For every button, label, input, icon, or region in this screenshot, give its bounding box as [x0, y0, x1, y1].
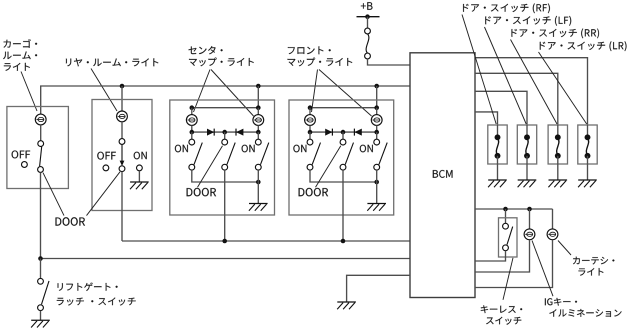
junction: bus2 at liftgate	[38, 256, 43, 261]
wire: rear common down to bus1	[121, 172, 123, 241]
BCM box	[410, 53, 475, 298]
leader: front map label to left lamp	[312, 70, 318, 113]
contact: center switch bottom x=191.8	[189, 164, 195, 170]
lever: front switch x=376.7	[379, 143, 387, 165]
junction: front inner bus left	[308, 105, 313, 110]
contact: cargo switch common	[38, 141, 44, 147]
wire: center diode bus	[192, 131, 258, 133]
wire: door switch LR to ground	[587, 156, 589, 180]
arrow: rear switch selector	[120, 144, 125, 166]
wire: liftgate to ground	[40, 311, 42, 321]
wire: front bus to left lamp	[309, 108, 311, 115]
wire: center inner top bus	[192, 107, 258, 109]
leader: front map label to right lamp	[319, 70, 372, 117]
box: center map light	[170, 100, 275, 215]
contact: front switch top x=376.7	[374, 139, 380, 145]
lamp: front map light right	[371, 115, 382, 126]
label: ON (center left)	[175, 145, 188, 153]
wire: front bus to right lamp	[376, 108, 378, 115]
junction: bus1 center	[222, 239, 227, 244]
junction: front diode bus left	[308, 130, 313, 135]
wire: door switch LF to ground	[526, 156, 528, 180]
wire: cargo lamp to switch	[40, 125, 42, 141]
leader: label to door switch LF	[485, 27, 527, 124]
junction: center inner bus left	[190, 105, 195, 110]
wire: BCM to door switch LF	[475, 91, 527, 125]
label: door switch (RF) ドア・スイッチ	[463, 3, 550, 13]
label: BCM	[433, 170, 453, 178]
lamp: courtesy light	[547, 229, 558, 240]
label: door switch (LF) ドア・スイッチ	[485, 16, 571, 26]
wire: door switch RR to ground	[557, 156, 559, 180]
leader: IG key label	[532, 241, 553, 297]
wire: +B down	[367, 17, 369, 29]
contact: front switch top x=310	[307, 139, 313, 145]
ground: door switch LR	[578, 180, 597, 187]
label: ON (rear)	[134, 152, 147, 160]
fusible link FL	[365, 28, 371, 59]
contact: door switch LF top	[524, 134, 530, 140]
lever: door switch RR	[557, 139, 559, 154]
lamp: center map light left	[186, 115, 197, 126]
contact: center switch bottom x=258.3	[255, 164, 261, 170]
contact: rear OFF	[103, 165, 109, 171]
wire: front DOOR common to bus1	[342, 170, 344, 241]
junction: +B	[365, 14, 370, 19]
wire: center DOOR common to bus1	[224, 170, 226, 241]
wire: center right lamp to diode bus	[257, 125, 259, 132]
label: DOOR (front)	[299, 188, 329, 196]
junction: IG lamp feed	[527, 207, 532, 212]
lever: door switch RF	[496, 139, 498, 154]
box: keyless switch	[499, 218, 518, 257]
wire: door switch RF to ground	[497, 156, 499, 180]
wire: bus2 cargo/liftgate to BCM	[41, 258, 411, 260]
contact: center switch top x=224.7	[222, 139, 228, 145]
junction: bus to rear lamp	[120, 84, 125, 89]
wire: bus drop to rear lamp	[121, 86, 123, 111]
lever: keyless switch	[507, 227, 513, 245]
terminal: +B bar	[357, 16, 380, 18]
ground: BCM	[337, 302, 356, 309]
leader: center map label to right lamp	[211, 70, 254, 117]
wire: center bus to right lamp	[257, 108, 259, 115]
wire: BCM to door switch RF	[475, 112, 498, 125]
contact: keyless bottom	[503, 245, 509, 251]
ground: door switch RR	[548, 180, 567, 187]
contact: door switch LR bottom	[585, 153, 591, 159]
wire: rear lamp to contact	[121, 122, 123, 139]
junction: bus1 front	[341, 239, 346, 244]
contact: center switch top x=191.8	[189, 139, 195, 145]
wire: BCM to door switch LR	[475, 58, 588, 125]
label: DOOR (cargo/rear)	[56, 217, 86, 225]
wire: front diode bus to contact x=343	[342, 132, 344, 139]
contact: cargo DOOR	[38, 167, 44, 173]
lamp: cargo room light	[35, 114, 46, 125]
contact: front switch top x=343	[340, 139, 346, 145]
contact: liftgate top	[38, 278, 44, 284]
contact: rear common	[119, 166, 125, 172]
contact: center switch bottom x=224.7	[222, 164, 228, 170]
wire: bus1 door-signal to BCM	[122, 240, 410, 242]
junction: bus to front map box	[374, 84, 379, 89]
lever: center switch x=258.3	[261, 143, 269, 165]
contact: door switch RF top	[495, 134, 501, 140]
wire: center diode bus to contact x=191.8	[191, 132, 193, 139]
wire: center bus to left lamp	[191, 108, 193, 115]
box: cargo room light	[7, 107, 69, 189]
wire: front diode bus to contact x=310	[309, 132, 311, 139]
contact: door switch LF bottom	[524, 153, 530, 159]
wire: bus drop into center map box	[257, 86, 259, 108]
diode: front right (anode right)	[354, 129, 361, 136]
contact: front switch bottom x=376.7	[374, 164, 380, 170]
diode: front left (anode left)	[325, 129, 332, 136]
lamp: front map light left	[305, 115, 316, 126]
junction: front diode bus right	[374, 130, 379, 135]
lever: front switch x=343	[345, 143, 353, 165]
junction: center bottom right	[256, 180, 261, 185]
wire: courtesy lamp to BCM	[475, 240, 553, 288]
lever: cargo switch	[40, 147, 42, 167]
contact: door switch RR bottom	[555, 153, 561, 159]
wire: keyless to BCM	[475, 251, 506, 261]
wire: bus drop into front map box	[376, 86, 378, 108]
junction: front inner bus right	[374, 105, 379, 110]
label: IG key illumination (IGキー・イルミネーション)	[545, 298, 622, 317]
label: ON (center right)	[242, 145, 255, 153]
label: front map light (フロント・マップ・ライト)	[288, 46, 353, 66]
label: rear room light (リヤ・ルーム・ライト)	[66, 58, 158, 66]
contact: keyless top	[503, 223, 509, 229]
wire: front right contact to ground	[376, 170, 378, 203]
wire: door switch LR top stub	[587, 125, 589, 137]
label: center map light (センタ・マップ・ライト)	[189, 46, 254, 66]
label: ON (front left)	[293, 145, 306, 153]
junction: center diode bus right	[256, 130, 261, 135]
label: DOOR (center)	[187, 188, 217, 196]
wire: front left lamp to diode bus	[309, 125, 311, 132]
wire: cargo switch to bus2	[40, 172, 42, 258]
leader: DOOR to center middle contact	[198, 146, 223, 188]
lever: center switch x=191.8	[194, 143, 202, 165]
contact: cargo OFF	[22, 162, 28, 168]
wire: door switch LF top stub	[526, 125, 528, 137]
lever: center switch x=224.7	[227, 143, 235, 165]
label: door switch (LR) ドア・スイッチ	[540, 41, 627, 51]
junction: bus to center map box	[256, 84, 261, 89]
lever: front switch x=310	[312, 143, 320, 165]
leader: keyless label	[503, 258, 513, 300]
contact: door switch LR top	[585, 134, 591, 140]
label: door switch (RR) ドア・スイッチ	[512, 29, 600, 39]
contact: front switch bottom x=310	[307, 164, 313, 170]
leader: DOOR to cargo contact	[43, 173, 64, 216]
leader: center map label to left lamp	[194, 70, 211, 113]
box: rear room light	[92, 100, 152, 211]
diode: center left (anode left)	[207, 129, 214, 136]
contact: rear switch top	[119, 139, 125, 145]
wire: rear ON to ground	[138, 171, 140, 182]
contact: door switch RF bottom	[495, 153, 501, 159]
ground: front box	[367, 204, 386, 211]
wire: center left lamp to diode bus	[191, 125, 193, 132]
label: OFF (cargo)	[12, 151, 31, 159]
contact: front switch bottom x=343	[340, 164, 346, 170]
leader: label to door switch RR	[511, 40, 558, 125]
wire: front bottom link	[310, 170, 377, 182]
switch: door switch LR box	[578, 125, 597, 164]
leader: courtesy label	[558, 241, 571, 256]
label: cargo room light (カーゴ・ルーム・ライト)	[3, 39, 37, 71]
lever: door switch LR	[586, 139, 588, 154]
switch: door switch RR box	[548, 125, 567, 164]
label: courtesy light (カーテシ・ライト)	[573, 257, 614, 276]
switch: door switch RF box	[488, 125, 507, 164]
leader: DOOR to front middle contact	[316, 146, 341, 188]
leader: label to door switch RF	[462, 15, 496, 125]
wire: IG key lamp to BCM	[475, 240, 530, 272]
box: front map light	[289, 100, 394, 215]
label: +B supply	[361, 2, 373, 10]
lamp: center map light right	[253, 115, 264, 126]
contact: door switch RR top	[555, 134, 561, 140]
wire: feed down to courtesy lamp	[552, 209, 554, 229]
wire: top supply bus	[41, 86, 410, 114]
lamp: IG key illumination	[524, 229, 535, 240]
leader: label to door switch LR	[539, 52, 587, 124]
ground: door switch RF	[488, 180, 507, 187]
label: keyless switch (キーレス・スイッチ)	[481, 305, 522, 324]
junction: front diode bus center	[341, 130, 346, 135]
wire: feed down to keyless switch	[505, 209, 507, 223]
wire: bus2 down to liftgate switch	[40, 259, 42, 279]
label: liftgate latch switch (リフトゲート・ラッチ・スイッチ)	[57, 283, 136, 306]
wire: door switch RR top stub	[557, 125, 559, 137]
wire: front right lamp to diode bus	[376, 125, 378, 132]
ground: door switch LF	[518, 180, 537, 187]
wire: center diode bus to contact x=224.7	[224, 132, 226, 139]
diode: center right (anode right)	[236, 129, 243, 136]
ground: rear ON	[130, 182, 149, 189]
junction: keyless feed	[503, 207, 508, 212]
leader: DOOR to rear contact	[87, 172, 121, 216]
wire: center right contact to ground	[257, 170, 259, 203]
junction: center inner bus right	[256, 105, 261, 110]
wire: front diode bus to contact x=376.7	[376, 132, 378, 139]
contact: center switch top x=258.3	[255, 139, 261, 145]
leader: cargo light label to lamp	[21, 72, 37, 112]
label: OFF (rear)	[97, 152, 116, 160]
junction: front bottom right	[374, 180, 379, 185]
wire: feed down to IG key lamp	[529, 209, 531, 229]
wire: front inner top bus	[310, 107, 377, 109]
wire: door switch RF top stub	[497, 125, 499, 137]
wire: BCM to door switch RR	[475, 73, 558, 125]
contact: rear ON	[137, 165, 143, 171]
lamp: rear room light	[117, 111, 128, 122]
ground: center box	[249, 204, 268, 211]
lever: liftgate switch	[42, 281, 50, 304]
wire: center bottom link	[192, 170, 258, 182]
leader: rear light label to lamp	[91, 69, 117, 112]
lever: door switch LF	[526, 139, 528, 154]
switch: door switch LF box	[517, 125, 536, 164]
junction: center diode bus left	[190, 130, 195, 135]
label: ON (front right)	[360, 145, 373, 153]
wire: front diode bus	[310, 131, 377, 133]
junction: center diode bus center	[222, 130, 227, 135]
wire: fusible link to BCM	[368, 59, 411, 65]
wire: center diode bus to contact x=258.3	[257, 132, 259, 139]
ground: liftgate	[31, 320, 50, 327]
wire: BCM to ground	[347, 275, 410, 302]
contact: liftgate bottom	[38, 305, 44, 311]
wire: BCM lamp feed bus	[475, 208, 553, 210]
